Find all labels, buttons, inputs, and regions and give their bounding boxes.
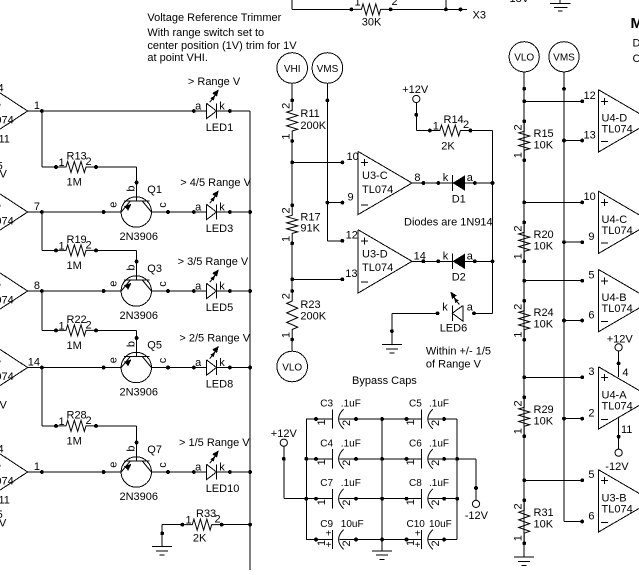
svg-text:2N3906: 2N3906 xyxy=(120,231,159,243)
svg-text:U1-B: U1-B xyxy=(0,199,1,211)
svg-text:1: 1 xyxy=(316,419,328,425)
svg-text:10uF: 10uF xyxy=(341,519,364,530)
svg-text:Within +/- 1/5: Within +/- 1/5 xyxy=(426,346,491,358)
svg-text:10: 10 xyxy=(347,151,359,163)
svg-text:TL074: TL074 xyxy=(602,503,633,515)
svg-text:VMS: VMS xyxy=(553,53,575,64)
svg-text:k: k xyxy=(443,250,449,262)
svg-text:.1uF: .1uF xyxy=(341,398,361,409)
svg-text:18V: 18V xyxy=(510,0,530,5)
svg-text:4: 4 xyxy=(0,83,4,95)
svg-text:4: 4 xyxy=(622,367,628,379)
svg-text:1: 1 xyxy=(59,320,65,332)
svg-text:2: 2 xyxy=(513,124,525,130)
svg-text:C: C xyxy=(633,53,639,65)
svg-text:VLO: VLO xyxy=(514,53,534,64)
svg-text:2: 2 xyxy=(463,119,469,131)
svg-text:1: 1 xyxy=(281,236,293,242)
svg-text:a: a xyxy=(467,250,474,262)
svg-text:C5: C5 xyxy=(409,398,422,409)
svg-text:D2: D2 xyxy=(452,272,466,284)
svg-text:TL074: TL074 xyxy=(0,294,14,306)
svg-text:c: c xyxy=(157,202,169,208)
svg-text:M: M xyxy=(631,15,639,32)
svg-text:11: 11 xyxy=(0,495,10,507)
svg-text:2: 2 xyxy=(341,460,353,466)
svg-text:LED3: LED3 xyxy=(206,223,234,235)
svg-text:2: 2 xyxy=(588,408,594,420)
svg-text:14: 14 xyxy=(414,250,426,262)
svg-text:2: 2 xyxy=(281,207,293,213)
svg-text:2: 2 xyxy=(430,500,442,506)
svg-text:1: 1 xyxy=(316,459,328,465)
svg-text:2: 2 xyxy=(281,293,293,299)
svg-text:+12V: +12V xyxy=(402,84,429,96)
svg-text:c: c xyxy=(157,462,169,468)
svg-text:C10: C10 xyxy=(407,519,426,530)
svg-text:5: 5 xyxy=(588,469,594,481)
svg-text:2: 2 xyxy=(430,540,442,546)
svg-text:.1uF: .1uF xyxy=(341,478,361,489)
svg-text:C4: C4 xyxy=(320,438,333,449)
svg-text:1: 1 xyxy=(59,240,65,252)
svg-text:> 1/5 Range V: > 1/5 Range V xyxy=(179,437,250,449)
svg-text:1: 1 xyxy=(513,253,525,259)
svg-text:U3-D: U3-D xyxy=(362,249,388,261)
svg-text:TL074: TL074 xyxy=(602,400,633,412)
svg-text:C9: C9 xyxy=(320,519,333,530)
svg-text:U1-B: U1-B xyxy=(0,355,1,367)
svg-text:+12V: +12V xyxy=(271,428,298,440)
svg-text:1: 1 xyxy=(34,100,40,112)
svg-text:c: c xyxy=(157,281,169,287)
svg-text:a: a xyxy=(467,302,474,314)
svg-text:Q3: Q3 xyxy=(147,263,162,275)
svg-text:9: 9 xyxy=(588,231,594,243)
svg-text:.1uF: .1uF xyxy=(341,438,361,449)
svg-text:c: c xyxy=(157,357,169,363)
svg-text:200K: 200K xyxy=(300,120,326,132)
svg-text:at point VHI.: at point VHI. xyxy=(147,52,208,64)
svg-text:200K: 200K xyxy=(300,311,326,323)
svg-text:1: 1 xyxy=(186,515,192,527)
svg-text:LED1: LED1 xyxy=(206,122,234,134)
svg-text:+: + xyxy=(415,528,421,539)
svg-text:R22: R22 xyxy=(67,314,87,326)
svg-text:1: 1 xyxy=(405,459,417,465)
svg-text:6: 6 xyxy=(588,511,594,523)
svg-text:R23: R23 xyxy=(300,299,320,311)
svg-text:2: 2 xyxy=(341,500,353,506)
svg-text:TL074: TL074 xyxy=(602,225,633,237)
svg-text:2K: 2K xyxy=(441,141,455,153)
svg-text:8: 8 xyxy=(34,280,40,292)
svg-text:1: 1 xyxy=(405,499,417,505)
svg-text:2: 2 xyxy=(430,420,442,426)
svg-text:C7: C7 xyxy=(320,478,333,489)
svg-text:12V: 12V xyxy=(0,518,7,530)
svg-text:+: + xyxy=(326,540,332,551)
svg-text:a: a xyxy=(467,172,474,184)
svg-text:1: 1 xyxy=(513,428,525,434)
svg-text:9: 9 xyxy=(348,191,354,203)
svg-text:U1-B: U1-B xyxy=(0,98,1,110)
svg-text:8: 8 xyxy=(414,172,420,184)
svg-text:e: e xyxy=(108,202,120,208)
svg-text:1: 1 xyxy=(355,0,361,9)
svg-text:Bypass Caps: Bypass Caps xyxy=(352,375,417,387)
svg-text:C3: C3 xyxy=(320,398,333,409)
svg-text:.1uF: .1uF xyxy=(429,438,449,449)
svg-text:U1-B: U1-B xyxy=(0,459,1,471)
svg-text:k: k xyxy=(442,302,448,314)
svg-text:TL074: TL074 xyxy=(362,184,393,196)
svg-text:4: 4 xyxy=(0,444,4,456)
svg-text:U3-C: U3-C xyxy=(362,170,388,182)
svg-text:1: 1 xyxy=(281,133,293,139)
svg-text:13: 13 xyxy=(345,268,357,280)
svg-text:1: 1 xyxy=(59,157,65,169)
svg-text:TL074: TL074 xyxy=(0,475,14,487)
svg-text:10K: 10K xyxy=(534,415,554,427)
svg-text:1M: 1M xyxy=(67,176,82,188)
svg-text:6: 6 xyxy=(588,310,594,322)
svg-text:1: 1 xyxy=(59,416,65,428)
svg-text:LED6: LED6 xyxy=(440,323,468,335)
svg-text:2K: 2K xyxy=(193,532,207,544)
svg-text:2: 2 xyxy=(341,540,353,546)
svg-text:R20: R20 xyxy=(534,229,554,241)
svg-text:+: + xyxy=(326,528,332,539)
svg-text:LED10: LED10 xyxy=(206,483,240,495)
svg-text:TL074: TL074 xyxy=(0,114,14,126)
svg-text:TL074: TL074 xyxy=(602,123,633,135)
svg-text:12V: 12V xyxy=(0,400,7,412)
svg-text:2: 2 xyxy=(430,460,442,466)
svg-text:1: 1 xyxy=(433,121,439,133)
svg-text:12: 12 xyxy=(584,90,596,102)
svg-text:D: D xyxy=(633,38,639,50)
svg-text:2: 2 xyxy=(513,400,525,406)
svg-text:TL074: TL074 xyxy=(0,215,14,227)
svg-text:R33: R33 xyxy=(196,508,216,520)
svg-text:> 2/5 Range V: > 2/5 Range V xyxy=(179,332,250,344)
svg-text:e: e xyxy=(108,357,120,363)
svg-text:7: 7 xyxy=(34,201,40,213)
svg-text:1M: 1M xyxy=(67,435,82,447)
svg-text:Q5: Q5 xyxy=(147,340,162,352)
svg-text:1: 1 xyxy=(513,535,525,541)
svg-text:R19: R19 xyxy=(67,234,87,246)
svg-text:U1-B: U1-B xyxy=(0,278,1,290)
svg-text:> 4/5 Range V: > 4/5 Range V xyxy=(180,177,251,189)
svg-text:Diodes are 1N914: Diodes are 1N914 xyxy=(404,217,493,229)
svg-text:R11: R11 xyxy=(300,108,319,120)
svg-text:1: 1 xyxy=(513,332,525,338)
svg-text:R13: R13 xyxy=(67,151,87,163)
svg-text:10: 10 xyxy=(584,191,596,203)
svg-text:2N3906: 2N3906 xyxy=(120,386,159,398)
svg-text:TL074: TL074 xyxy=(362,262,393,274)
svg-text:of Range V: of Range V xyxy=(426,359,482,371)
svg-text:VLO: VLO xyxy=(282,362,302,373)
svg-text:> Range V: > Range V xyxy=(188,76,241,88)
svg-text:13: 13 xyxy=(584,130,596,142)
svg-text:-12V: -12V xyxy=(465,510,489,522)
svg-text:With range switch set to: With range switch set to xyxy=(147,27,264,39)
svg-text:R24: R24 xyxy=(534,307,554,319)
svg-text:R15: R15 xyxy=(534,128,554,140)
svg-text:.1uF: .1uF xyxy=(429,478,449,489)
svg-text:12V: 12V xyxy=(0,169,7,181)
svg-text:2: 2 xyxy=(392,0,398,8)
svg-text:Voltage Reference Trimmer: Voltage Reference Trimmer xyxy=(147,12,281,24)
svg-text:-12V: -12V xyxy=(605,461,629,473)
svg-text:.1uF: .1uF xyxy=(429,398,449,409)
svg-text:R14: R14 xyxy=(444,114,464,126)
svg-text:e: e xyxy=(108,462,120,468)
svg-text:b: b xyxy=(126,185,138,191)
svg-text:14: 14 xyxy=(28,357,40,369)
svg-text:VHI: VHI xyxy=(284,64,301,75)
svg-text:10K: 10K xyxy=(534,518,554,530)
svg-text:C6: C6 xyxy=(409,438,422,449)
svg-text:2: 2 xyxy=(513,225,525,231)
svg-text:TL074: TL074 xyxy=(0,371,14,383)
svg-text:11: 11 xyxy=(621,424,632,436)
svg-text:k: k xyxy=(443,172,449,184)
svg-text:1: 1 xyxy=(405,419,417,425)
svg-text:R29: R29 xyxy=(534,404,554,416)
svg-text:1: 1 xyxy=(34,461,40,473)
svg-text:b: b xyxy=(126,264,138,270)
svg-text:LED8: LED8 xyxy=(206,379,234,391)
svg-text:> 3/5 Range V: > 3/5 Range V xyxy=(178,256,249,268)
svg-text:TL074: TL074 xyxy=(602,303,633,315)
svg-text:R31: R31 xyxy=(534,507,554,519)
svg-text:2: 2 xyxy=(281,103,293,109)
svg-text:1: 1 xyxy=(316,499,328,505)
svg-text:11: 11 xyxy=(0,134,10,146)
svg-text:10K: 10K xyxy=(534,240,554,252)
svg-text:30K: 30K xyxy=(362,16,382,28)
svg-text:3: 3 xyxy=(588,366,594,378)
svg-text:1M: 1M xyxy=(67,260,82,272)
svg-text:R28: R28 xyxy=(67,410,87,422)
svg-text:LED5: LED5 xyxy=(206,302,234,314)
svg-text:5: 5 xyxy=(588,269,594,281)
svg-text:Q1: Q1 xyxy=(147,184,162,196)
svg-text:1: 1 xyxy=(513,152,525,158)
svg-text:12: 12 xyxy=(346,230,358,242)
svg-text:2: 2 xyxy=(513,503,525,509)
svg-text:e: e xyxy=(108,281,120,287)
svg-text:10uF: 10uF xyxy=(429,519,452,530)
svg-text:VMS: VMS xyxy=(317,64,339,75)
svg-text:2N3906: 2N3906 xyxy=(120,310,159,322)
svg-text:1: 1 xyxy=(281,332,293,338)
svg-text:1M: 1M xyxy=(67,340,82,352)
svg-text:b: b xyxy=(126,341,138,347)
svg-text:2: 2 xyxy=(341,420,353,426)
svg-text:X3: X3 xyxy=(473,10,486,22)
svg-text:C8: C8 xyxy=(409,478,422,489)
svg-text:10K: 10K xyxy=(534,139,554,151)
svg-text:b: b xyxy=(126,445,138,451)
svg-text:2N3906: 2N3906 xyxy=(120,491,159,503)
svg-text:center position (1V) trim for: center position (1V) trim for 1V xyxy=(147,40,297,52)
svg-text:+: + xyxy=(415,540,421,551)
svg-text:Q7: Q7 xyxy=(147,444,162,456)
svg-text:10K: 10K xyxy=(534,319,554,331)
svg-text:2: 2 xyxy=(513,304,525,310)
svg-text:D1: D1 xyxy=(452,193,466,205)
svg-text:91K: 91K xyxy=(300,223,320,235)
